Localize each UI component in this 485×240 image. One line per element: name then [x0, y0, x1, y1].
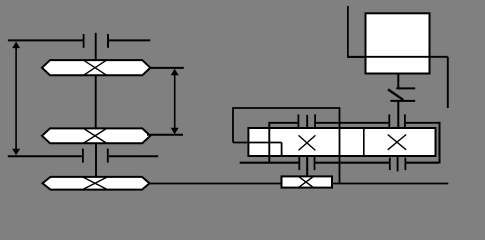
motor shaft lower segment — [397, 102, 399, 128]
lower shaft line of gearbox (left segment) — [240, 162, 299, 164]
gear Z3 (bottom hexagon block) — [43, 177, 150, 190]
shaft II middle segment between gear Z1 and gear Z2 — [95, 76, 97, 128]
coupling M2 left half-bar — [82, 149, 84, 163]
bearing bars above left gear — [298, 114, 315, 128]
casing right wall bracket — [439, 122, 441, 164]
upper shaft line of gearbox (middle segment) — [316, 122, 388, 124]
coupling M1 left half-bar — [83, 34, 85, 48]
connecting shaft line from gear Z3 to pinion Z4 — [150, 183, 282, 185]
lower shaft line of gearbox (middle segment) — [315, 162, 389, 164]
shaft between left gear and pinion Z4 — [306, 156, 308, 177]
upper shaft line of gearbox (left segment) — [269, 122, 297, 124]
casing step outline over input — [233, 108, 340, 184]
clutch upper bar — [396, 87, 415, 89]
small input box right edge — [281, 143, 283, 157]
dimension line D1 (left overall height) — [12, 42, 20, 156]
gear Z1 (top hexagon block) — [42, 60, 150, 75]
gear Z2 (middle hexagon block) — [42, 128, 150, 143]
shaft I horizontal line right of coupling M1 — [109, 39, 150, 41]
vertical shaft II upper segment through coupling M1 gap — [95, 33, 97, 60]
motor flange divider line — [348, 56, 448, 58]
shaft II lower segment through coupling M2 gap — [95, 144, 97, 177]
motor mount polyline (left of motor) — [348, 6, 365, 57]
shaft III line left of coupling M2 — [8, 155, 82, 157]
casing left wall V1 — [268, 122, 270, 164]
bearing bars above right gear — [389, 114, 405, 128]
output line from pinion Z4 to the right — [332, 183, 448, 185]
gear Z6 cross (right X in box) — [388, 135, 407, 150]
coupling M1 right half-bar — [107, 34, 109, 48]
clutch slanted lever — [388, 89, 403, 100]
gear Z5 cross (left X in box) — [299, 135, 316, 150]
coupling M2 right half-bar — [107, 149, 109, 163]
motor mount polyline (right of motor, dangling) — [447, 57, 449, 108]
bearing bars below left gear — [299, 157, 314, 170]
extension line from gear Z2 — [147, 134, 183, 136]
small input box top edge — [233, 142, 282, 144]
shaft III line right of coupling M2 — [109, 155, 158, 157]
lower shaft line of gearbox (right segment) — [406, 162, 439, 164]
dimension line D2 (center distance) — [171, 69, 179, 134]
upper shaft line of gearbox (right segment) — [406, 122, 439, 124]
gearbox housing (big box) — [248, 128, 435, 156]
bearing bars below right gear — [390, 156, 406, 172]
gearbox internal divider — [363, 128, 365, 156]
clutch lower bar — [390, 100, 415, 102]
electric motor body — [366, 13, 430, 73]
shaft I horizontal line left of coupling M1 — [8, 39, 83, 41]
pinion Z4 (small bottom gear box) — [282, 176, 333, 187]
motor shaft upper segment — [397, 74, 399, 88]
extension line from gear Z1 — [150, 67, 184, 69]
